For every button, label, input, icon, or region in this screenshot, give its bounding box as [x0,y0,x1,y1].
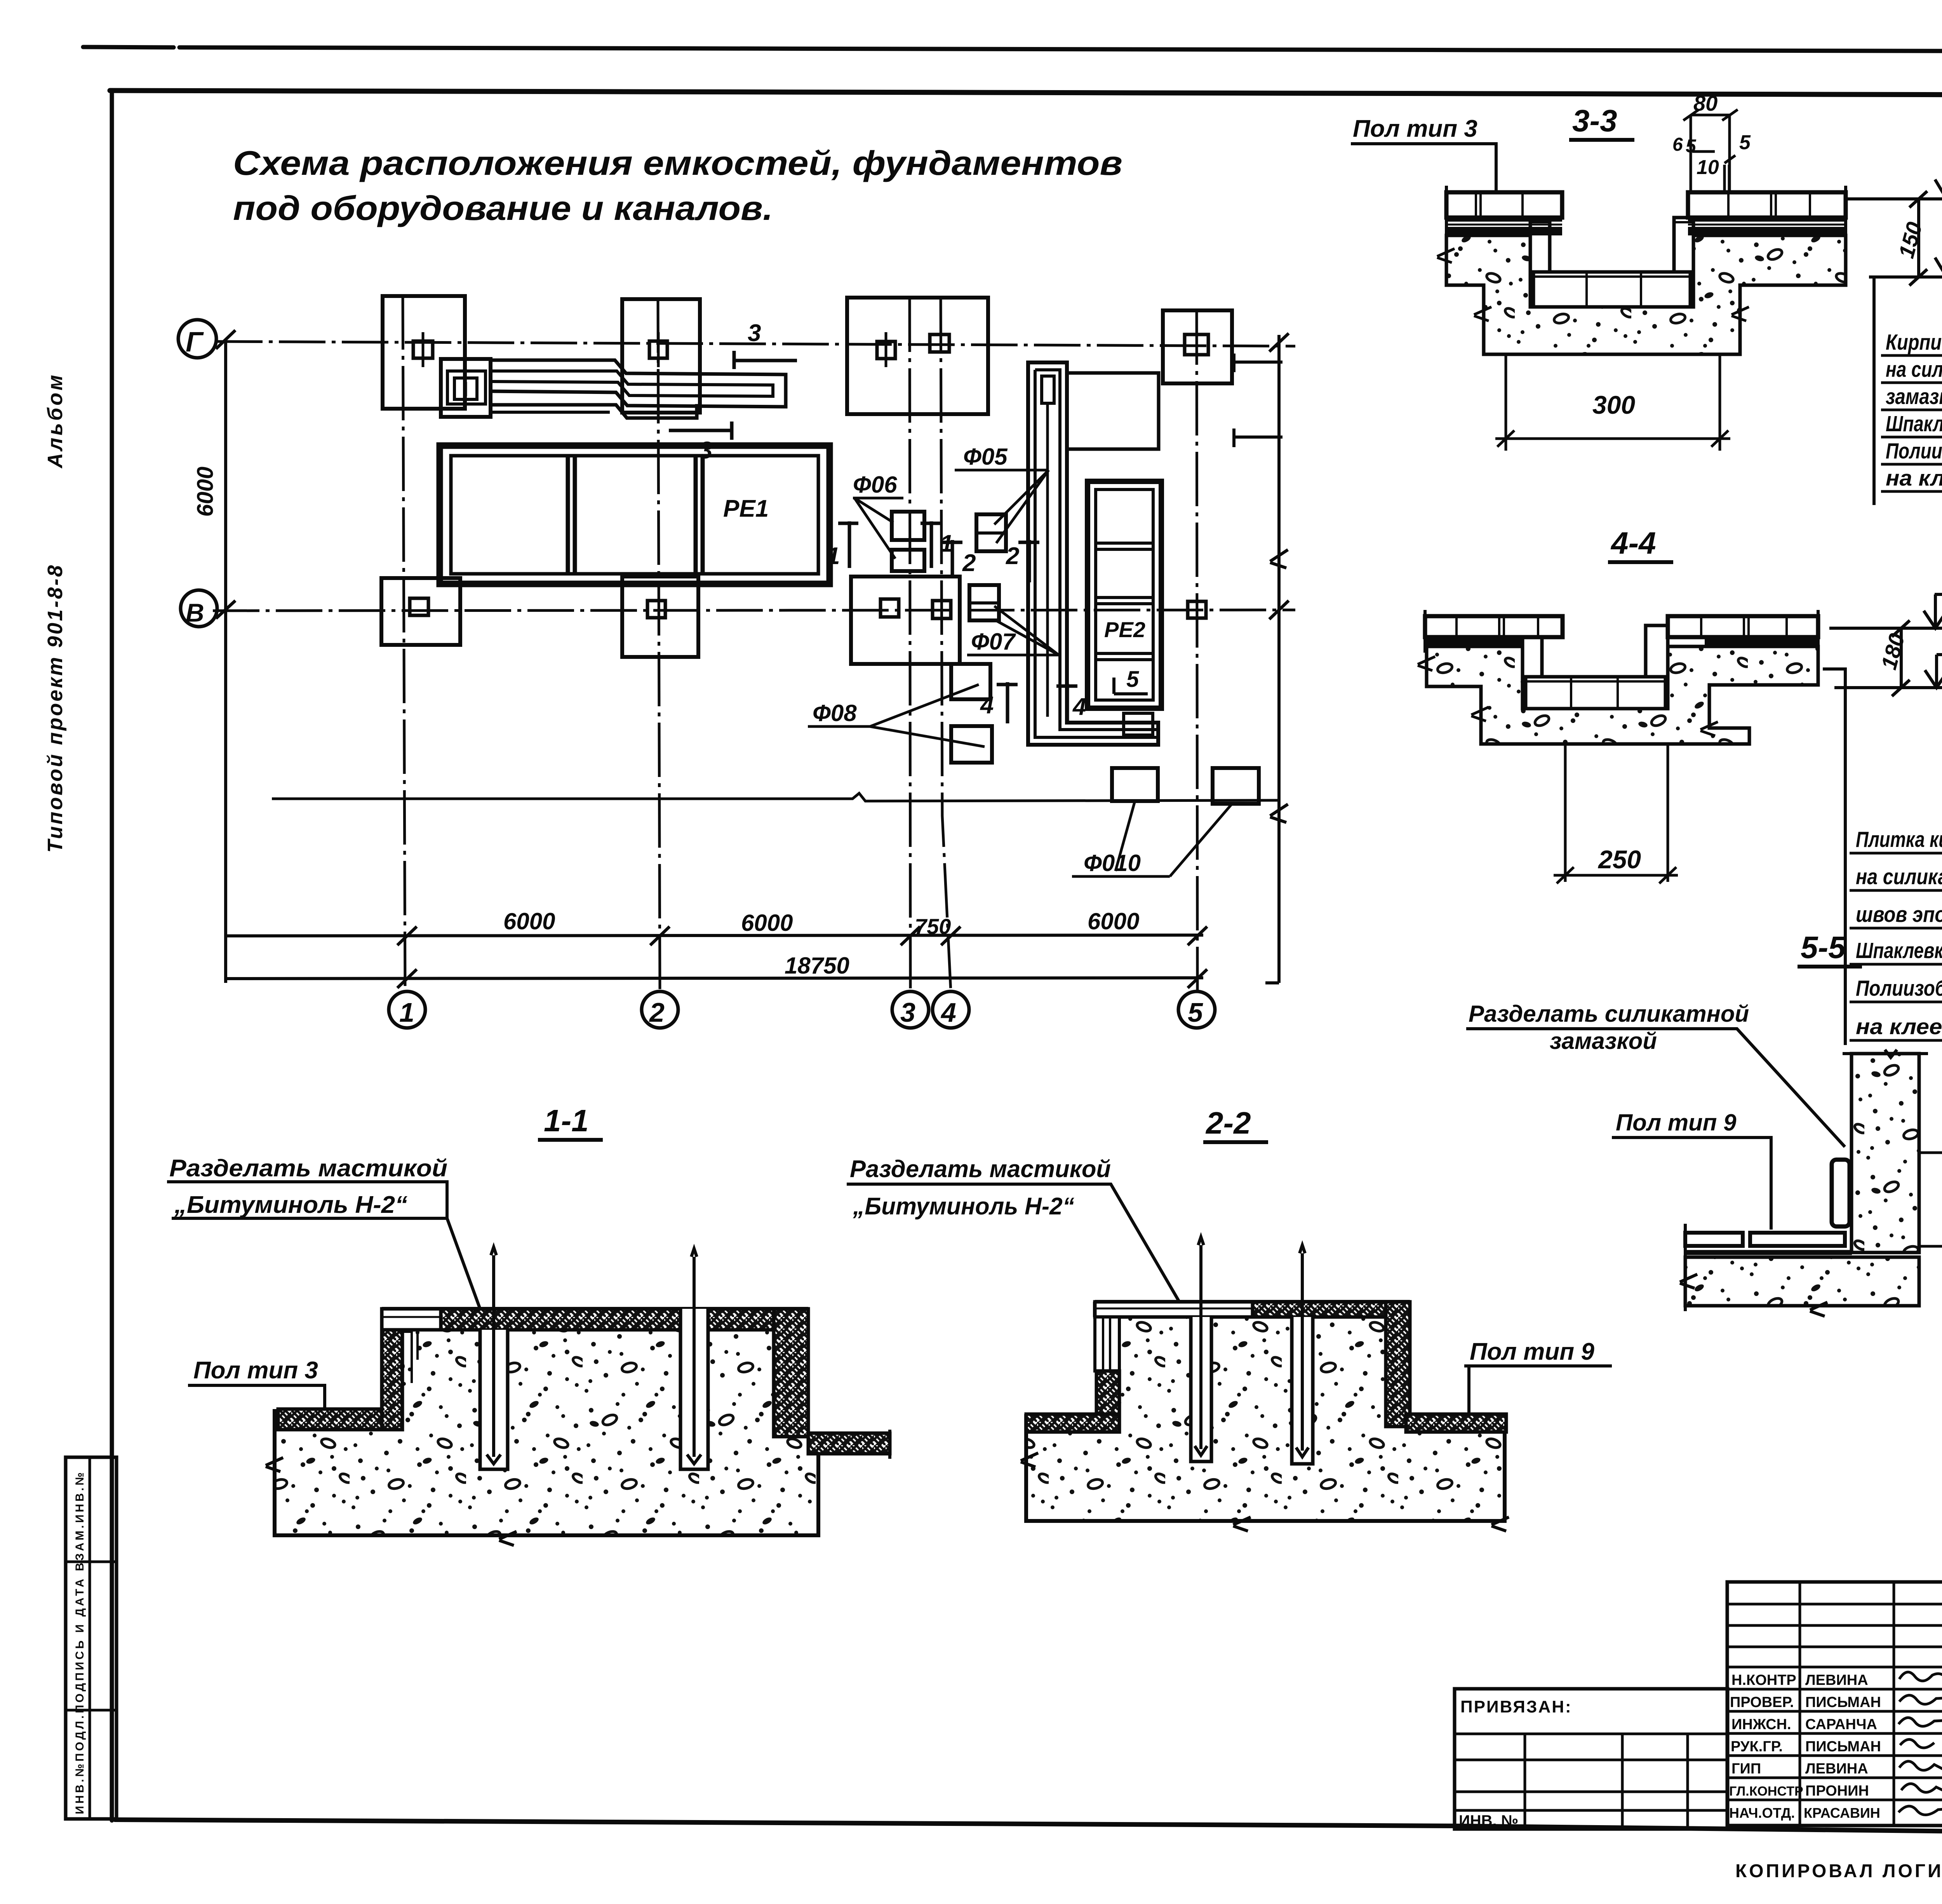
svg-text:швов эпоксидной смолой ЭВ-20: швов эпоксидной смолой ЭВ-20 [1856,902,1942,927]
svg-text:300: 300 [1592,390,1635,419]
svg-text:Схема расположения емкостей, ф: Схема расположения емкостей, фундаментов [233,144,1122,182]
svg-text:2: 2 [962,550,976,577]
svg-text:4: 4 [1072,693,1086,720]
svg-text:Ф08: Ф08 [813,700,857,726]
svg-text:1: 1 [827,543,840,570]
svg-text:ПИСЬМАН: ПИСЬМАН [1805,1694,1881,1711]
svg-text:Полиизобутилен марки ПСГ δ=2: Полиизобутилен марки ПСГ δ=2,5в 2слоя [1856,976,1942,1001]
svg-text:4: 4 [980,692,994,719]
svg-text:4-4: 4-4 [1610,526,1656,560]
svg-text:на клее ВВ-Н: на клее ВВ-Н [1856,1014,1942,1039]
svg-text:10: 10 [1697,156,1719,179]
svg-text:80: 80 [1693,91,1718,115]
svg-text:Пол тип 3: Пол тип 3 [1353,115,1477,142]
svg-text:Ф05: Ф05 [963,444,1008,470]
svg-text:Разделать мастикой: Разделать мастикой [169,1155,447,1182]
svg-text:1-1: 1-1 [544,1103,589,1138]
svg-text:6000: 6000 [193,467,218,517]
svg-text:Шпаклевка силикатной замазкой: Шпаклевка силикатной замазкой δ=4мм. [1856,938,1942,963]
svg-text:Ф010: Ф010 [1084,850,1141,876]
svg-text:250: 250 [1597,845,1641,874]
svg-text:В: В [186,598,204,627]
svg-text:Кирпич кислотоупорный В. 114 к: Кирпич кислотоупорный В. 114 кирпич А [1886,330,1942,355]
svg-text:5-5: 5-5 [1801,930,1846,965]
svg-text:Пол тип 9: Пол тип 9 [1470,1338,1594,1365]
svg-text:2: 2 [1006,543,1019,570]
svg-text:5: 5 [1739,131,1751,154]
svg-text:замазкой: замазкой [1550,1028,1657,1054]
svg-text:Плитка кислотоупорная керамиче: Плитка кислотоупорная керамическая δ=20 [1856,827,1942,852]
svg-text:6: 6 [1672,134,1683,155]
svg-text:Разделать силикатной: Разделать силикатной [1469,1001,1749,1027]
svg-text:РЕ2: РЕ2 [1104,617,1145,642]
svg-text:ЛЕВИНА: ЛЕВИНА [1805,1761,1868,1777]
svg-text:Разделать мастикой: Разделать мастикой [850,1156,1111,1183]
svg-text:РЕ1: РЕ1 [723,495,769,522]
svg-text:2-2: 2-2 [1205,1106,1251,1140]
svg-text:6000: 6000 [741,910,793,936]
svg-text:Пол тип 3: Пол тип 3 [193,1357,318,1384]
svg-text:Г: Г [186,327,204,358]
svg-text:750: 750 [915,914,951,939]
svg-text:ПРИВЯЗАН:: ПРИВЯЗАН: [1460,1697,1572,1716]
svg-text:3-3: 3-3 [1572,103,1617,138]
svg-text:5: 5 [1126,667,1139,692]
svg-text:РУК.ГР.: РУК.ГР. [1731,1739,1783,1755]
svg-text:3: 3 [900,997,915,1028]
svg-text:Ф07: Ф07 [971,629,1016,655]
svg-text:ПИСЬМАН: ПИСЬМАН [1805,1739,1881,1755]
svg-text:5: 5 [1188,997,1203,1028]
svg-text:1: 1 [940,530,953,557]
svg-text:„Битуминоль Н-2“: „Битуминоль Н-2“ [174,1192,407,1218]
svg-text:ГИП: ГИП [1731,1761,1761,1777]
svg-text:3: 3 [699,437,712,464]
svg-text:ИНЖСН.: ИНЖСН. [1731,1716,1791,1733]
svg-text:ПРОНИН: ПРОНИН [1805,1783,1869,1799]
svg-text:САРАНЧА: САРАНЧА [1805,1716,1877,1733]
svg-text:6000: 6000 [503,908,555,934]
svg-text:6000: 6000 [1088,908,1139,934]
svg-text:ГЛ.КОНСТР: ГЛ.КОНСТР [1729,1784,1803,1799]
svg-text:Шпаклевка силикатной замазкой: Шпаклевка силикатной замазкой δ=5мм. [1886,411,1942,436]
svg-text:Н.КОНТР: Н.КОНТР [1731,1672,1796,1688]
svg-text:ПРОВЕР.: ПРОВЕР. [1730,1694,1794,1711]
svg-text:3: 3 [748,320,761,347]
svg-text:4: 4 [940,997,956,1028]
svg-text:НАЧ.ОТД.: НАЧ.ОТД. [1729,1805,1795,1821]
svg-text:КРАСАВИН: КРАСАВИН [1804,1805,1880,1821]
svg-text:„Битуминоль Н-2“: „Битуминоль Н-2“ [853,1193,1074,1220]
svg-text:Ф06: Ф06 [853,472,897,498]
svg-text:Пол тип 9: Пол тип 9 [1616,1110,1737,1136]
svg-text:ЛЕВИНА: ЛЕВИНА [1805,1672,1868,1688]
svg-text:на силикатной замазке с раздел: на силикатной замазке с разделкой швов [1886,357,1942,382]
svg-text:ИНВ. №: ИНВ. № [1459,1812,1518,1829]
svg-text:18750: 18750 [785,953,849,979]
svg-text:2: 2 [649,997,665,1028]
svg-text:под оборудование и каналов.: под оборудование и каналов. [233,189,773,227]
svg-text:КОПИРОВАЛ ЛОГИНОВА: КОПИРОВАЛ ЛОГИНОВА [1735,1861,1942,1881]
svg-text:на силикатной замазке с раздел: на силикатной замазке с разделкой [1856,864,1942,889]
svg-text:5: 5 [1686,136,1697,157]
svg-text:Полиизобутилен марки ПСГ δ=2,5: Полиизобутилен марки ПСГ δ=2,5в 2слоя [1886,439,1942,463]
svg-text:1: 1 [399,997,414,1028]
svg-text:на клее ВВ-Н: на клее ВВ-Н [1886,466,1942,491]
svg-text:замазкой арзамит-5 на глубину: замазкой арзамит-5 на глубину 15 мм. [1886,384,1942,409]
